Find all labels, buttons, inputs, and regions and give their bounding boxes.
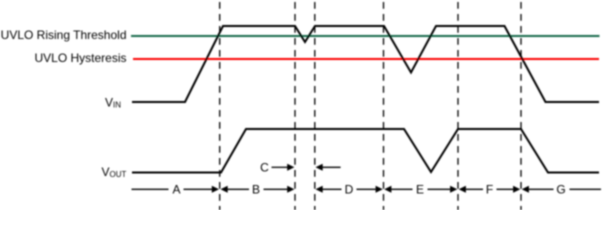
dimension B line left segment [228, 188, 250, 190]
dimension C leader line [272, 166, 288, 168]
svg-text:G: G [556, 183, 565, 197]
dimension A line right segment [184, 188, 213, 190]
dimension G left arrowhead [522, 186, 529, 193]
dimension D line right segment [357, 188, 376, 190]
dimension A line left segment [132, 188, 169, 190]
dimension B left arrowhead [221, 186, 228, 193]
svg-text:B: B [252, 183, 260, 197]
UVLO hysteresis line (red) [133, 58, 599, 60]
dimension C opposing leader line [322, 166, 340, 168]
dimension G line left segment [529, 188, 554, 190]
dimension C right arrowhead [287, 164, 294, 171]
svg-text:C: C [260, 161, 269, 175]
VOUT waveform [132, 129, 599, 173]
dashed time marker t3 [314, 2, 316, 210]
dimension G line right segment [570, 188, 602, 190]
dashed time marker t6 [520, 2, 522, 210]
dimension B line right segment [264, 188, 288, 190]
dimension E line right segment [428, 188, 451, 190]
dimension A right arrowhead [212, 186, 219, 193]
svg-text:F: F [486, 183, 493, 197]
UVLO rising threshold line (green) [131, 35, 600, 37]
dimension B right arrowhead [287, 186, 294, 193]
dimension E right arrowhead [450, 186, 457, 193]
dimension D left arrowhead [316, 186, 323, 193]
dimension F left arrowhead [459, 186, 466, 193]
VIN waveform [132, 26, 599, 102]
dimension C opposing arrowhead [316, 164, 323, 171]
dashed time marker t2 [294, 2, 296, 210]
dashed time marker t5 [457, 2, 459, 210]
svg-text:UVLO Rising Threshold: UVLO Rising Threshold [1, 28, 127, 42]
dimension E left arrowhead [384, 186, 391, 193]
dimension F line right segment [497, 188, 514, 190]
dimension E line left segment [391, 188, 412, 190]
dashed time marker t4 [383, 2, 385, 210]
dimension D line left segment [322, 188, 341, 190]
svg-text:A: A [172, 183, 180, 197]
svg-text:D: D [345, 183, 354, 197]
svg-text:UVLO Hysteresis: UVLO Hysteresis [34, 51, 126, 65]
dimension D right arrowhead [376, 186, 383, 193]
dimension F right arrowhead [513, 186, 520, 193]
dimension F line left segment [466, 188, 483, 190]
svg-text:E: E [416, 183, 424, 197]
dashed time marker t1 [219, 2, 221, 210]
